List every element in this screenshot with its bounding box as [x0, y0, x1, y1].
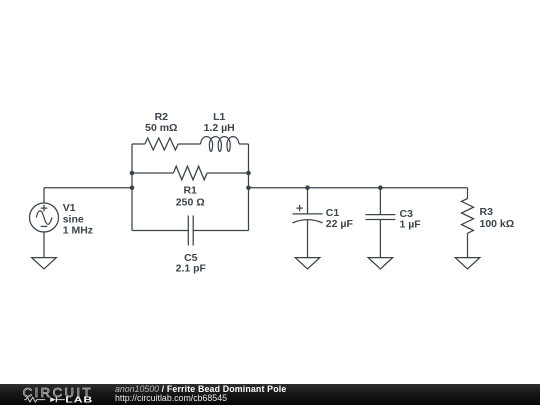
ground below C3 — [368, 258, 393, 269]
footer bar — [0, 384, 540, 405]
label R2: name and value — [145, 111, 177, 134]
label R1: name and value — [176, 185, 205, 209]
wire: rail from V1 to parallel block left node — [44, 187, 132, 189]
wire: parallel block left vertical — [131, 144, 133, 231]
ground below V1 — [32, 258, 57, 269]
svg-text:22 µF: 22 µF — [326, 218, 354, 230]
ground below C1 — [295, 258, 320, 269]
wire: rail from parallel block right node to R3 corner — [249, 187, 468, 189]
resistor R2 — [145, 138, 178, 150]
wire: C3 bottom stem — [379, 220, 381, 258]
ground below R3 — [455, 258, 480, 269]
label L1: name and value — [204, 111, 235, 134]
label C5: name and value — [176, 252, 207, 275]
capacitor C1 (polarized) — [292, 205, 322, 223]
CircuitLab logo — [21, 384, 101, 405]
svg-text:100 kΩ: 100 kΩ — [480, 218, 515, 230]
resistor R3 — [462, 199, 474, 234]
svg-text:50 mΩ: 50 mΩ — [145, 122, 177, 134]
voltage source V1 — [30, 203, 59, 232]
svg-text:1 MHz: 1 MHz — [63, 225, 93, 237]
node: rail / block left vertical junction — [130, 185, 135, 190]
inductor L1 — [201, 137, 239, 152]
wire: between R2 and L1 — [178, 143, 200, 145]
wire: C3 top stem — [379, 188, 381, 215]
node: R1 branch / block left vertical junction — [130, 171, 135, 176]
node: R1 branch / block right vertical junction — [246, 171, 251, 176]
wire: C1 top stem — [307, 188, 309, 214]
label R3: name and value — [480, 206, 515, 230]
label C1: name and value — [326, 207, 354, 230]
node: C3 tap on rail — [378, 185, 383, 190]
node: C1 tap on rail — [305, 185, 310, 190]
wire: R1 branch left lead — [132, 172, 173, 174]
wire: parallel block right vertical — [248, 144, 250, 231]
svg-text:R1: R1 — [183, 185, 197, 197]
wire: V1 top stem — [43, 188, 45, 203]
wire: top branch left lead — [132, 143, 145, 145]
wire: V1 bottom stem — [43, 232, 45, 258]
wire: C1 bottom stem — [307, 220, 309, 257]
svg-text:R3: R3 — [480, 206, 494, 218]
resistor R1 — [173, 166, 207, 180]
wire: top branch right lead — [239, 143, 249, 145]
label C3: name and value — [400, 208, 422, 231]
capacitor C5 — [188, 216, 193, 246]
footer text — [115, 385, 286, 404]
wire: R3 top stem — [467, 188, 469, 199]
svg-text:V1: V1 — [63, 202, 76, 214]
svg-text:2.1 pF: 2.1 pF — [176, 263, 207, 275]
wire: R3 bottom stem — [467, 233, 469, 257]
label V1: name and values — [63, 202, 93, 237]
svg-text:1 µF: 1 µF — [400, 219, 422, 231]
svg-text:LAB: LAB — [65, 396, 93, 405]
svg-text:1.2 µH: 1.2 µH — [204, 122, 235, 134]
wire: C5 branch left lead — [132, 230, 188, 232]
wire: R1 branch right lead — [207, 172, 249, 174]
wire: C5 branch right lead — [193, 230, 248, 232]
svg-text:250 Ω: 250 Ω — [176, 197, 205, 209]
capacitor C3 — [365, 215, 395, 220]
node: rail / block right vertical junction — [246, 185, 251, 190]
